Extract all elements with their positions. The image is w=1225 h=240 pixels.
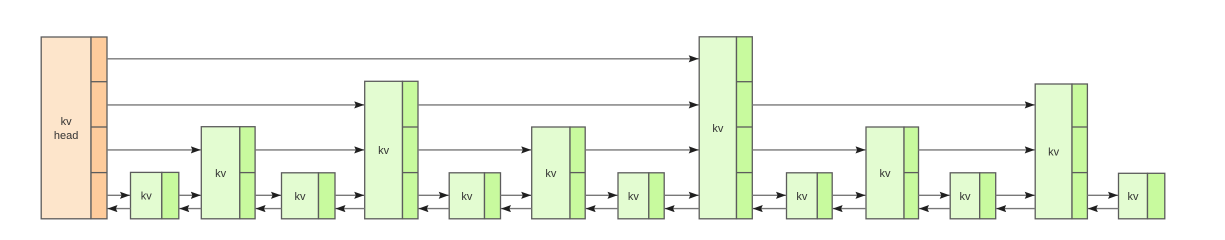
node N9: skip-list element (1 level) — [787, 173, 833, 219]
svg-text:kv: kv — [712, 123, 724, 135]
wire: level-1 forward pointer N2 to N4 — [255, 149, 364, 151]
wire: level-0 back pointer N3 to N2 — [256, 208, 282, 210]
wire: level-0 back pointer N13 to N12 — [1088, 208, 1119, 210]
svg-text:kv: kv — [796, 191, 808, 203]
svg-text:kv: kv — [141, 191, 153, 203]
node N4: skip-list element (3 levels) — [365, 81, 418, 219]
wire: level-0 forward pointer N5 to N6 — [501, 194, 532, 196]
node N10: skip-list element (2 levels) — [866, 127, 919, 219]
wire: level-0 forward pointer N7 to N8 — [664, 194, 699, 196]
wire: level-1 forward pointer N10 to N12 — [919, 149, 1035, 151]
node N3: skip-list element (1 level) — [282, 173, 336, 219]
node N6: skip-list element (2 levels) — [532, 127, 586, 219]
node N8: skip-list element (4 levels) — [699, 37, 752, 219]
wire: level-0 back pointer N12 to N11 — [996, 208, 1035, 210]
node N2: skip-list element (2 levels) — [201, 127, 255, 219]
wire: level-1 forward pointer N8 to N10 — [752, 149, 865, 151]
wire: level-0 back pointer N2 to N1 — [179, 208, 201, 210]
svg-text:kv: kv — [545, 168, 557, 180]
svg-text:kv: kv — [1128, 191, 1140, 203]
node N1: skip-list element (1 level) — [131, 172, 179, 218]
node N12: skip-list element (3 levels) — [1035, 84, 1087, 219]
wire: level-3 forward pointer head to N8 — [107, 58, 699, 60]
wire: level-0 back pointer N11 to N10 — [919, 208, 950, 210]
svg-text:kv: kv — [960, 191, 972, 203]
wire: level-1 forward pointer N4 to N6 — [418, 149, 531, 151]
wire: level-0 forward pointer N10 to N11 — [919, 194, 950, 196]
svg-text:kv: kv — [880, 168, 892, 180]
wire: level-2 forward pointer N8 to N12 — [752, 104, 1034, 106]
wire: level-0 back pointer N1 to head — [108, 208, 131, 210]
wire: level-0 forward pointer N2 to N3 — [255, 194, 281, 196]
svg-text:kv: kv — [628, 191, 640, 203]
wire: level-0 forward pointer N9 to N10 — [832, 194, 865, 196]
wire: level-0 forward pointer N4 to N5 — [418, 194, 449, 196]
node N7: skip-list element (1 level) — [618, 173, 664, 219]
node head: skip-list header (4 levels) — [41, 37, 107, 219]
wire: level-0 forward pointer N6 to N7 — [585, 194, 617, 196]
wire: level-0 forward pointer head to N1 — [107, 194, 130, 196]
wire: level-0 forward pointer N3 to N4 — [335, 194, 364, 196]
svg-text:kv: kv — [295, 191, 307, 203]
node N13: skip-list element (1 level) — [1119, 173, 1165, 219]
wire: level-1 forward pointer head to N2 — [107, 149, 201, 151]
wire: level-0 back pointer N7 to N6 — [586, 208, 618, 210]
svg-text:kv: kv — [61, 116, 73, 128]
svg-text:kv: kv — [1048, 146, 1060, 158]
svg-text:head: head — [54, 130, 78, 142]
wire: level-2 forward pointer N4 to N8 — [418, 104, 699, 106]
wire: level-2 forward pointer head to N4 — [107, 104, 364, 106]
node N5: skip-list element (1 level) — [449, 173, 500, 219]
svg-text:kv: kv — [215, 168, 227, 180]
wire: level-0 back pointer N9 to N8 — [753, 208, 787, 210]
wire: level-0 forward pointer N11 to N12 — [996, 194, 1035, 196]
wire: level-1 forward pointer N6 to N8 — [585, 149, 699, 151]
svg-text:kv: kv — [378, 145, 390, 157]
wire: level-0 forward pointer N8 to N9 — [752, 194, 786, 196]
wire: level-0 back pointer N5 to N4 — [419, 208, 450, 210]
wire: level-0 back pointer N4 to N3 — [336, 208, 365, 210]
wire: level-0 forward pointer N1 to N2 — [179, 194, 201, 196]
svg-text:kv: kv — [461, 191, 473, 203]
node N11: skip-list element (1 level) — [950, 173, 996, 219]
wire: level-0 forward pointer N12 to N13 — [1087, 194, 1118, 196]
wire: level-0 back pointer N10 to N9 — [833, 208, 866, 210]
wire: level-0 back pointer N6 to N5 — [501, 208, 532, 210]
wire: level-0 back pointer N8 to N7 — [665, 208, 700, 210]
